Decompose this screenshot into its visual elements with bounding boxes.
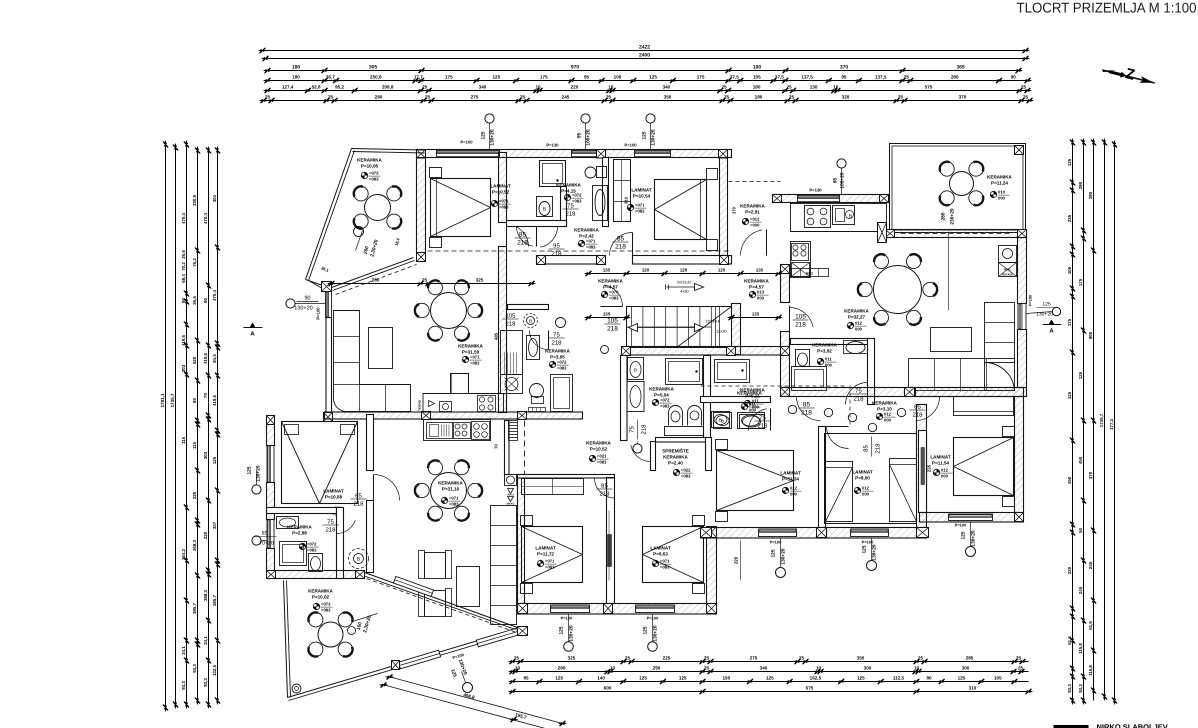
svg-text:450: 450 <box>1078 456 1083 464</box>
svg-text:24,1: 24,1 <box>181 646 186 655</box>
svg-text:250,8: 250,8 <box>370 75 382 80</box>
svg-text:303: 303 <box>181 364 186 372</box>
wall: E3 east wall <box>1015 397 1024 513</box>
svg-text:LAMINAT: LAMINAT <box>650 546 671 551</box>
svg-text:KERAMIKA: KERAMIKA <box>287 525 312 530</box>
svg-text:KERAMIKA: KERAMIKA <box>556 183 581 188</box>
door circles E <box>788 405 796 413</box>
svg-text:85: 85 <box>803 402 811 409</box>
svg-text:175: 175 <box>1067 318 1072 326</box>
svg-text:280: 280 <box>372 278 380 283</box>
column: stair wall col b <box>727 347 736 356</box>
level mark terrace C lvl <box>313 603 319 609</box>
svg-text:10: 10 <box>816 666 822 671</box>
svg-text:24,1: 24,1 <box>203 636 208 645</box>
column: unit D south col <box>906 388 916 397</box>
svg-text:120: 120 <box>642 268 650 273</box>
svg-text:280: 280 <box>375 95 383 100</box>
sliding door dash <box>901 233 1011 235</box>
svg-text:520: 520 <box>192 356 197 364</box>
svg-text:220: 220 <box>571 85 579 90</box>
sink A <box>440 402 452 412</box>
svg-text:P=11,72: P=11,72 <box>537 552 554 557</box>
svg-text:P=130: P=130 <box>546 143 559 148</box>
svg-text:000: 000 <box>884 418 892 423</box>
svg-text:350: 350 <box>857 656 865 661</box>
wall: bath wall mid <box>603 158 609 227</box>
svg-text:KERAMIKA: KERAMIKA <box>872 401 897 406</box>
svg-text:25: 25 <box>724 95 730 100</box>
sink D <box>833 206 855 225</box>
svg-text:95: 95 <box>553 243 560 250</box>
wall: storage north <box>656 438 707 443</box>
level mark bedroom1 lvl <box>491 200 497 206</box>
svg-text:10: 10 <box>833 85 839 90</box>
elektro cabinets <box>792 269 829 277</box>
stove M <box>454 423 471 439</box>
BO.O boxes <box>529 408 546 412</box>
bed: bed R <box>643 527 704 583</box>
bed: bed bedroom1 <box>431 179 491 237</box>
unit C marker2 <box>252 536 261 545</box>
wall: units E south b <box>827 528 927 539</box>
oven D <box>792 244 809 261</box>
sink D bath <box>846 342 865 354</box>
svg-text:P=2,91: P=2,91 <box>745 210 760 215</box>
svg-text:17,7: 17,7 <box>414 75 423 80</box>
svg-text:310: 310 <box>969 686 977 691</box>
kitchen D lower counter <box>791 242 811 278</box>
svg-text:P=100: P=100 <box>561 616 573 621</box>
svg-text:280: 280 <box>1088 191 1093 199</box>
svg-text:=071: =071 <box>545 559 555 564</box>
svg-text:385,7: 385,7 <box>192 602 197 614</box>
column: unit A south col a <box>422 412 431 420</box>
svg-text:=071: =071 <box>499 199 509 204</box>
svg-text:130+20: 130+20 <box>569 625 575 641</box>
svg-text:1200/6,6: 1200/6,6 <box>705 320 720 324</box>
svg-text:65: 65 <box>262 531 268 537</box>
svg-text:85: 85 <box>192 398 197 403</box>
svg-text:P=2,40: P=2,40 <box>668 461 683 466</box>
tall units M <box>501 331 523 375</box>
column: stair wall col a <box>622 347 631 356</box>
kitchen A counter <box>423 374 504 413</box>
svg-text:75: 75 <box>629 426 636 433</box>
svg-text:KERAMIKA: KERAMIKA <box>649 387 674 392</box>
level mark bath C lvl <box>299 543 305 549</box>
table: dining table A <box>431 293 467 329</box>
svg-text:LAMINAT: LAMINAT <box>535 546 556 551</box>
window: unit C window2 <box>267 520 274 549</box>
svg-text:25: 25 <box>606 95 612 100</box>
dim left line3 <box>186 145 188 705</box>
tub bath1 <box>593 186 608 221</box>
level mark bath1 lvl <box>564 194 570 200</box>
svg-text:900: 900 <box>1088 331 1093 339</box>
svg-text:=083: =083 <box>470 361 480 366</box>
wall: bedrooms south <box>518 604 717 615</box>
svg-text:25: 25 <box>1018 666 1024 671</box>
level mark corridor L lvl <box>601 291 607 297</box>
svg-text:=083: =083 <box>681 474 691 479</box>
shaft M kitchen <box>509 421 518 441</box>
svg-text:000: 000 <box>862 492 870 497</box>
svg-text:419,6: 419,6 <box>181 334 186 346</box>
column: corridor col a <box>537 256 546 265</box>
dim bottom row3 <box>513 681 1029 683</box>
E2 marker <box>867 561 877 571</box>
svg-text:25: 25 <box>625 656 631 661</box>
wall: E1 east <box>819 427 826 528</box>
svg-text:75: 75 <box>327 519 334 526</box>
svg-text:105: 105 <box>607 318 618 325</box>
dim bottom row2 <box>513 671 1029 673</box>
svg-text:012: 012 <box>855 321 863 326</box>
svg-text:TERMO: TERMO <box>418 399 422 410</box>
terrace TL dashed roofline <box>336 265 417 295</box>
svg-text:340: 340 <box>479 85 487 90</box>
svg-text:175: 175 <box>540 75 548 80</box>
tub M <box>666 359 703 385</box>
svg-text:P=100: P=100 <box>862 540 874 545</box>
door: bath C door <box>337 520 356 533</box>
bed: bed C <box>282 422 358 504</box>
bedroom R marker <box>648 642 658 652</box>
svg-text:275: 275 <box>471 95 479 100</box>
wall: E3 north <box>905 388 1024 397</box>
svg-text:364,2: 364,2 <box>181 548 186 560</box>
svg-text:310: 310 <box>624 196 629 204</box>
door: room E3 door <box>916 397 940 421</box>
svg-text:25: 25 <box>918 656 924 661</box>
north arrow Z <box>1101 59 1158 89</box>
dashed line upper corridor <box>428 250 729 252</box>
svg-text:37,5: 37,5 <box>775 75 784 80</box>
svg-text:130+20: 130+20 <box>490 129 496 145</box>
svg-text:LAMINAT: LAMINAT <box>852 470 873 475</box>
column: corridor col c <box>720 256 729 265</box>
top marker 1 <box>485 114 494 123</box>
svg-text:115,8: 115,8 <box>1088 665 1093 676</box>
wall: bedrooms north <box>518 475 615 479</box>
column: terrace C post <box>392 661 400 670</box>
logo bar <box>1054 725 1089 728</box>
wall: spine1 upper <box>499 153 507 223</box>
svg-text:303: 303 <box>203 451 208 459</box>
table: living D table <box>874 266 922 314</box>
tub D <box>792 367 827 391</box>
svg-text:93,3: 93,3 <box>203 678 208 687</box>
tub C <box>280 542 307 566</box>
svg-text:P=100: P=100 <box>316 307 321 320</box>
chain stairhead <box>589 317 627 319</box>
svg-text:KERAMIKA: KERAMIKA <box>574 228 599 233</box>
terrace TR outline <box>890 144 1026 233</box>
tub M3 <box>551 375 573 412</box>
svg-text:125: 125 <box>247 466 253 474</box>
bed: bed E3 <box>954 438 1014 496</box>
wc D <box>796 350 810 367</box>
tub M2 <box>715 360 750 383</box>
svg-text:REG: REG <box>806 272 813 276</box>
svg-text:95: 95 <box>833 178 839 184</box>
svg-text:125: 125 <box>771 549 777 557</box>
svg-text:325: 325 <box>568 656 576 661</box>
dim right line5 <box>1114 145 1116 701</box>
svg-text:=071: =071 <box>660 559 670 564</box>
wall: unit C bath east <box>337 508 344 579</box>
svg-text:52,8: 52,8 <box>312 85 321 90</box>
door: storage door <box>631 445 651 462</box>
column: top wall col b <box>597 150 606 159</box>
column: spine2 col bottom <box>781 388 790 397</box>
column: unit C se col <box>356 571 365 579</box>
svg-text:470,4: 470,4 <box>212 289 217 301</box>
terrace C marker <box>463 683 473 693</box>
wall: bath1 south <box>507 221 567 227</box>
bed: bed bedroom2 <box>655 180 707 240</box>
coffee table A <box>369 328 393 369</box>
svg-text:LAMINAT: LAMINAT <box>930 455 951 460</box>
svg-text:140: 140 <box>597 676 605 681</box>
terrace C window sill2 <box>476 628 518 647</box>
svg-text:=083: =083 <box>307 548 317 553</box>
svg-text:93,3: 93,3 <box>1067 684 1072 693</box>
sofa B <box>491 506 517 625</box>
svg-text:95: 95 <box>841 75 847 80</box>
column: stair wall col c <box>781 347 790 356</box>
svg-text:LAMINAT: LAMINAT <box>490 184 511 189</box>
svg-text:175: 175 <box>697 75 705 80</box>
svg-text:125: 125 <box>649 75 657 80</box>
svg-text:350: 350 <box>664 95 672 100</box>
window: unit D east window <box>1018 304 1026 330</box>
wardrobe bed L <box>522 479 584 495</box>
column: tr col a <box>773 195 782 203</box>
svg-text:70,2: 70,2 <box>181 262 186 271</box>
svg-text:010: 010 <box>998 190 1006 195</box>
svg-text:175: 175 <box>445 75 453 80</box>
svg-text:B: B <box>719 418 722 423</box>
svg-text:LAMINAT: LAMINAT <box>780 471 801 476</box>
chain stairhead r <box>732 317 779 319</box>
dim right line1 <box>1072 143 1074 701</box>
svg-text:337: 337 <box>212 521 217 529</box>
svg-text:218: 218 <box>912 412 923 419</box>
svg-text:2422: 2422 <box>639 45 650 51</box>
sink M3 <box>527 336 540 360</box>
sink M2 <box>740 415 765 429</box>
bed: bed L <box>522 527 583 583</box>
svg-text:011: 011 <box>825 357 832 362</box>
svg-text:135: 135 <box>752 312 760 317</box>
svg-text:245: 245 <box>1088 561 1093 569</box>
svg-text:P=100: P=100 <box>955 523 967 528</box>
svg-text:125: 125 <box>1067 158 1072 166</box>
svg-text:230+20: 230+20 <box>950 208 956 224</box>
table: terrace TL table <box>365 195 391 221</box>
radiator E3 <box>921 448 925 485</box>
top marker 3 <box>646 114 655 123</box>
svg-text:61,6: 61,6 <box>1088 621 1093 630</box>
svg-text:130: 130 <box>810 85 818 90</box>
corridor M marker <box>633 444 642 453</box>
dim left line5 <box>208 151 210 705</box>
svg-text:=083: =083 <box>660 565 670 570</box>
svg-text:P=10,52: P=10,52 <box>492 190 510 195</box>
svg-text:NIRKO SLABOLJEV: NIRKO SLABOLJEV <box>1097 723 1168 728</box>
porch dashed line <box>729 181 781 183</box>
svg-text:1745,7: 1745,7 <box>1099 413 1104 427</box>
shower <box>540 161 566 187</box>
svg-text:90: 90 <box>181 298 186 303</box>
svg-text:675: 675 <box>806 686 814 691</box>
dim left line2 <box>175 148 177 705</box>
svg-text:600: 600 <box>604 686 612 691</box>
svg-text:76,2: 76,2 <box>192 258 197 267</box>
svg-text:180: 180 <box>292 65 301 71</box>
bed E2 left mattress <box>826 462 853 522</box>
svg-text:70: 70 <box>494 444 499 449</box>
svg-text:61,6: 61,6 <box>1067 636 1072 645</box>
chain terrace A <box>332 283 532 285</box>
level mark bed R lvl <box>652 560 658 566</box>
armchair B2 <box>425 591 446 617</box>
level mark bath M2 lvl <box>741 403 747 409</box>
dim right line2 <box>1083 143 1085 701</box>
svg-text:125: 125 <box>559 626 565 634</box>
svg-text:280: 280 <box>951 75 959 80</box>
wc M3 <box>524 314 538 328</box>
svg-text:95,2: 95,2 <box>335 85 344 90</box>
column: bedroom R ne col <box>707 527 717 538</box>
svg-text:KERAMIKA: KERAMIKA <box>598 279 623 284</box>
svg-text:=083: =083 <box>597 460 607 465</box>
svg-text:P=100: P=100 <box>624 143 637 148</box>
column: E south col b <box>817 528 827 538</box>
svg-text:225: 225 <box>663 656 671 661</box>
svg-text:325: 325 <box>476 278 484 283</box>
svg-text:P=130: P=130 <box>809 188 822 193</box>
wall: spine2 lower <box>781 332 790 388</box>
svg-text:235: 235 <box>1067 214 1072 222</box>
svg-text:KERAMIKA: KERAMIKA <box>740 204 765 209</box>
column: tr col b <box>880 195 889 203</box>
sink M <box>427 423 453 439</box>
column: top wall col a <box>417 150 426 159</box>
dim slanted bottom-left <box>389 677 563 724</box>
wall: bath1 partition <box>561 187 567 227</box>
svg-text:218: 218 <box>599 491 610 498</box>
terrace C bottom railing <box>288 628 522 698</box>
svg-text:127,4: 127,4 <box>282 85 294 90</box>
svg-text:P=100: P=100 <box>460 140 473 145</box>
svg-text:135: 135 <box>756 268 764 273</box>
kitchen window marker <box>837 159 846 168</box>
svg-text:90: 90 <box>1011 75 1017 80</box>
door knob circle L <box>601 346 609 354</box>
svg-text:150: 150 <box>722 676 730 681</box>
level mark corridor M lvl <box>589 455 595 461</box>
svg-text:=083: =083 <box>586 245 596 250</box>
svg-text:=073: =073 <box>321 602 331 607</box>
wc pair M <box>665 427 704 436</box>
terrace C upper sill <box>393 576 433 596</box>
terrace TL railing left <box>306 149 352 280</box>
svg-text:301: 301 <box>212 194 217 202</box>
svg-text:LAMINAT: LAMINAT <box>631 188 652 193</box>
svg-text:385,7: 385,7 <box>212 594 217 606</box>
level mark bed E1 lvl <box>782 487 788 493</box>
svg-text:25: 25 <box>1023 95 1029 100</box>
svg-text:P=9,00: P=9,00 <box>855 476 870 481</box>
svg-text:=083: =083 <box>635 209 645 214</box>
level mark bath2 lvl <box>578 240 584 246</box>
svg-text:50: 50 <box>1078 528 1083 533</box>
svg-text:125: 125 <box>1067 391 1072 399</box>
column: E3 south col <box>1015 513 1024 522</box>
svg-text:330,9: 330,9 <box>192 194 197 206</box>
vent circle M3 <box>556 318 566 328</box>
svg-text:=072: =072 <box>557 360 567 365</box>
svg-text:OSTAVE: OSTAVE <box>1002 273 1013 277</box>
dim right line3 <box>1093 143 1095 701</box>
svg-text:112,5: 112,5 <box>893 676 905 681</box>
svg-text:26,6: 26,6 <box>181 250 186 259</box>
svg-text:218: 218 <box>565 211 576 218</box>
svg-text:419,6: 419,6 <box>203 352 208 364</box>
terrace C small circle <box>348 627 356 635</box>
svg-text:P=10,54: P=10,54 <box>633 194 651 199</box>
column: bed south col a <box>518 604 528 614</box>
svg-text:300: 300 <box>962 666 970 671</box>
terrace C door sill <box>398 650 440 669</box>
E3 marker <box>966 547 976 557</box>
svg-text:36,7: 36,7 <box>326 75 335 80</box>
level mark porch lvl <box>742 218 748 224</box>
svg-text:P=31,18: P=31,18 <box>442 487 460 492</box>
svg-text:25: 25 <box>425 95 431 100</box>
svg-text:=072: =072 <box>660 398 670 403</box>
svg-text:115: 115 <box>192 441 197 449</box>
terrace TL railing top <box>352 149 425 151</box>
level mark bath M3 lvl <box>549 361 555 367</box>
svg-text:900,3: 900,3 <box>507 494 514 497</box>
column: spine2 col top <box>781 265 790 274</box>
svg-text:4x30: 4x30 <box>680 290 688 294</box>
svg-text:75: 75 <box>553 332 560 339</box>
door: unit C living door <box>374 475 400 501</box>
coffee table D <box>931 328 972 352</box>
svg-text:KERAMIKA: KERAMIKA <box>663 455 688 460</box>
wardrobe E3 <box>954 397 1014 416</box>
svg-text:=083: =083 <box>609 296 619 301</box>
svg-text:268,3: 268,3 <box>192 539 197 551</box>
door: porch door <box>741 230 763 256</box>
dim top row 2422 <box>263 50 1026 52</box>
svg-text:=012: =012 <box>750 217 760 222</box>
svg-text:25: 25 <box>514 656 520 661</box>
svg-text:013: 013 <box>757 290 765 295</box>
svg-text:10: 10 <box>608 85 614 90</box>
svg-text:65: 65 <box>355 493 362 500</box>
column: unit A south col b <box>518 412 527 420</box>
wall: E2 east <box>917 405 927 528</box>
svg-text:180: 180 <box>753 65 762 71</box>
svg-text:000: 000 <box>998 196 1006 201</box>
level mark living D lvl <box>847 322 853 328</box>
